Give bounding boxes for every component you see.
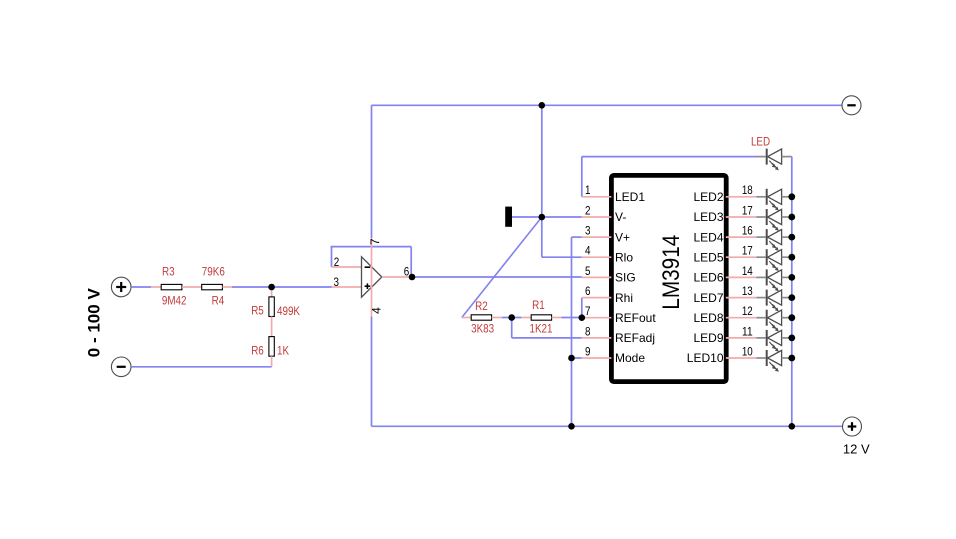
- wire node B down and right to REFadj: [512, 318, 582, 338]
- LED D10: [756, 350, 791, 372]
- LED D1 (top indicator): [751, 135, 792, 171]
- resistor R5 499K: [251, 297, 300, 318]
- svg-text:Rhi: Rhi: [615, 291, 633, 305]
- node LED D8 cathode on rail: [0, 0, 1, 1]
- svg-text:LED8: LED8: [693, 311, 723, 325]
- wire op-amp V+ rail (top rail down through op-amp, pin 7): [371, 105, 373, 277]
- terminal - (0-100V input negative): [111, 357, 131, 377]
- svg-text:6: 6: [585, 284, 591, 298]
- resistor R2 3K83: [462, 299, 502, 335]
- node bottom rail / LED rail branch: [0, 0, 1, 1]
- svg-text:1K21: 1K21: [530, 322, 553, 336]
- svg-text:16: 16: [742, 224, 753, 238]
- svg-text:LED5: LED5: [693, 250, 723, 264]
- pin 16 stub (LED4): [726, 224, 757, 238]
- node LED D2 cathode on rail: [0, 0, 1, 1]
- wire R4 to node A: [222, 286, 271, 288]
- pin 17 stub (LED5): [726, 244, 757, 258]
- svg-text:3: 3: [334, 275, 340, 289]
- wire pin1 elbow up and right to LED D1: [582, 157, 758, 197]
- pin number 2: [334, 255, 340, 269]
- svg-text:LED9: LED9: [693, 331, 723, 345]
- svg-text:8: 8: [585, 324, 591, 338]
- svg-text:0 - 100 V: 0 - 100 V: [84, 288, 103, 358]
- svg-text:11: 11: [742, 324, 753, 338]
- wire + terminal to R3: [131, 286, 161, 288]
- node V- junction: [0, 0, 1, 1]
- svg-text:R6: R6: [251, 344, 264, 358]
- svg-text:17: 17: [742, 244, 753, 258]
- svg-text:3: 3: [585, 224, 591, 238]
- svg-text:LED1: LED1: [615, 190, 645, 204]
- resistor R4 79K6: [202, 265, 225, 308]
- svg-text:2: 2: [334, 255, 340, 269]
- svg-text:REFout: REFout: [615, 311, 656, 325]
- node LED D6 cathode on rail: [0, 0, 1, 1]
- wire feedback op-amp output to inverting input: [331, 247, 412, 277]
- wire Mode node to pin9 stub: [572, 357, 582, 359]
- svg-text:LED3: LED3: [693, 210, 723, 224]
- pin 8 stub (REFadj): [582, 324, 612, 338]
- wire LED rail (right vertical): [791, 157, 793, 427]
- wire pin3 stub: [332, 286, 362, 288]
- resistor R6 1K: [251, 337, 289, 358]
- svg-text:14: 14: [742, 264, 753, 278]
- svg-text:LM3914: LM3914: [658, 235, 685, 310]
- node LED D7 cathode on rail: [0, 0, 1, 1]
- LED D6: [756, 269, 791, 291]
- wire diagonal V- node to R2: [462, 217, 542, 318]
- svg-text:6: 6: [404, 264, 410, 278]
- pin 1 stub (LED1): [582, 183, 612, 197]
- label 0 - 100 V: [84, 288, 103, 358]
- label 12 V: [843, 442, 870, 457]
- node B (R2/R1 junction): [0, 0, 1, 1]
- node 6 (op-amp output): [404, 264, 410, 278]
- svg-text:LED7: LED7: [693, 291, 723, 305]
- LED D5: [756, 249, 791, 271]
- node LED D4 cathode on rail: [0, 0, 1, 1]
- wire pin2 stub: [332, 266, 362, 268]
- svg-text:R1: R1: [532, 298, 545, 312]
- pin 9 stub (Mode): [582, 344, 612, 358]
- svg-text:R3: R3: [162, 265, 175, 279]
- capacitor C1 plate (probe): [505, 207, 512, 227]
- pin 7 stub (REFout): [582, 304, 612, 318]
- svg-text:3K83: 3K83: [471, 322, 494, 336]
- svg-text:12 V: 12 V: [843, 442, 870, 457]
- LED D3: [756, 209, 791, 231]
- svg-text:V-: V-: [615, 210, 626, 224]
- node LED D5 cathode on rail: [0, 0, 1, 1]
- pin number 4: [370, 307, 384, 314]
- junction dots overlay: [268, 102, 795, 430]
- wire R3 to R4: [182, 286, 202, 288]
- node A (divider tap): [0, 0, 1, 1]
- wire Rhi elbow down to REFout node: [581, 298, 583, 318]
- svg-text:17: 17: [742, 203, 753, 217]
- svg-text:4: 4: [585, 244, 591, 258]
- svg-text:2: 2: [585, 203, 591, 217]
- svg-text:LED6: LED6: [693, 271, 723, 285]
- node REFout: [0, 0, 1, 1]
- pin number 3: [334, 275, 340, 289]
- svg-text:5: 5: [585, 264, 591, 278]
- svg-text:R5: R5: [251, 304, 264, 318]
- LED D9: [756, 330, 791, 352]
- pin 2 stub (V-): [582, 203, 612, 217]
- svg-text:R4: R4: [212, 294, 225, 308]
- wire R2 to node B: [502, 317, 512, 319]
- svg-text:R2: R2: [475, 299, 488, 313]
- LED D8: [756, 310, 791, 332]
- node LED D10 cathode on rail: [0, 0, 1, 1]
- op-amp U1: [362, 257, 382, 297]
- LED D4: [756, 229, 791, 251]
- svg-text:4: 4: [370, 307, 384, 314]
- pin 5 stub (SIG): [582, 264, 612, 278]
- wire V- node down to Rlo elbow: [542, 217, 582, 257]
- terminal + (12V supply): [843, 417, 862, 436]
- svg-text:Rlo: Rlo: [615, 250, 633, 264]
- pin 11 stub (LED9): [726, 324, 757, 338]
- svg-text:10: 10: [742, 344, 753, 358]
- pin 18 stub (LED2): [726, 183, 757, 197]
- svg-text:13: 13: [742, 284, 753, 298]
- node LED D9 cathode on rail: [0, 0, 1, 1]
- LED D2: [756, 189, 791, 211]
- node Mode junction: [0, 0, 1, 1]
- svg-text:7: 7: [585, 304, 591, 318]
- wire R6 bottom to - terminal: [131, 356, 271, 367]
- node top rail / V- branch: [0, 0, 1, 1]
- svg-text:V+: V+: [615, 230, 630, 244]
- pin 14 stub (LED6): [726, 264, 757, 278]
- wire plate to V- node: [512, 216, 542, 218]
- svg-text:REFadj: REFadj: [615, 331, 655, 345]
- wire R1 to REFout node: [562, 317, 582, 319]
- svg-text:7: 7: [368, 238, 382, 245]
- wire top rail down to V- node: [541, 105, 543, 217]
- IC U1 LM3914 body: [611, 175, 726, 381]
- wire node 6 to SIG pin 5: [412, 276, 582, 278]
- node LED D3 cathode on rail: [0, 0, 1, 1]
- wire op-amp V- (pin 4) down to bottom rail: [371, 277, 373, 426]
- svg-text:12: 12: [742, 304, 753, 318]
- resistor R1 1K21: [512, 298, 562, 336]
- pin 12 stub (LED8): [726, 304, 757, 318]
- terminal + (0-100V input positive): [111, 277, 131, 297]
- svg-text:LED4: LED4: [693, 230, 723, 244]
- pin 17 stub (LED3): [726, 203, 757, 217]
- svg-text:18: 18: [742, 183, 753, 197]
- pin number 7: [368, 238, 382, 245]
- pin 3 stub (V+): [582, 224, 612, 238]
- svg-text:LED: LED: [751, 135, 770, 149]
- svg-text:499K: 499K: [277, 304, 300, 318]
- wire bottom rail (+12V): [372, 425, 843, 427]
- svg-text:9M42: 9M42: [162, 294, 187, 308]
- svg-text:LED2: LED2: [693, 190, 723, 204]
- wire node A down to R5: [271, 287, 273, 297]
- wire V- node to pin2 stub: [542, 216, 582, 218]
- node bottom rail / V+ branch: [0, 0, 1, 1]
- wire R5 to R6: [271, 317, 273, 337]
- pin 6 stub (Rhi): [582, 284, 612, 298]
- pin 13 stub (LED7): [726, 284, 757, 298]
- svg-text:1: 1: [585, 183, 591, 197]
- svg-text:79K6: 79K6: [202, 265, 225, 279]
- wire node A to op-amp + input: [272, 286, 332, 288]
- resistor R3 9M42: [161, 265, 187, 308]
- svg-text:LED10: LED10: [687, 351, 724, 365]
- wire op-amp output to node 6: [382, 276, 412, 278]
- pin 4 stub (Rlo): [582, 244, 612, 258]
- svg-text:1K: 1K: [277, 344, 289, 358]
- svg-text:Mode: Mode: [615, 351, 645, 365]
- pin 10 stub (LED10): [726, 344, 757, 358]
- svg-text:SIG: SIG: [615, 271, 636, 285]
- wire V+ pin3 elbow down to bottom rail: [572, 237, 582, 426]
- terminal - (top right): [842, 96, 861, 115]
- wire top rail to terminal -: [372, 104, 842, 106]
- LED D7: [756, 290, 791, 312]
- svg-text:9: 9: [585, 344, 591, 358]
